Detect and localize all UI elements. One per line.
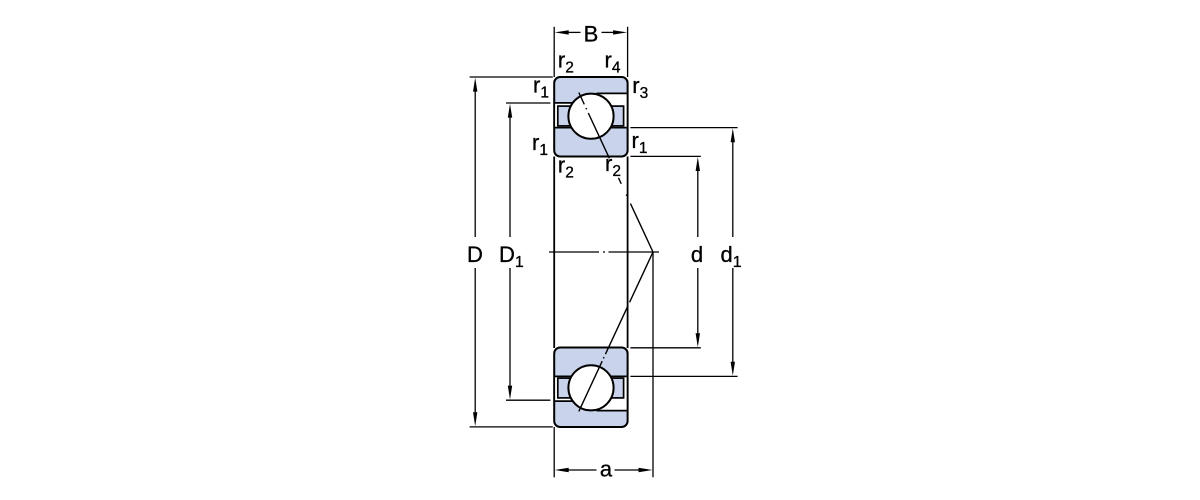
svg-text:D1: D1 <box>499 242 524 271</box>
svg-text:d1: d1 <box>721 242 742 271</box>
svg-text:D: D <box>467 242 483 267</box>
svg-text:r4: r4 <box>605 48 621 77</box>
svg-text:r3: r3 <box>632 73 648 102</box>
svg-text:d: d <box>691 242 703 267</box>
svg-text:a: a <box>600 457 613 482</box>
svg-text:B: B <box>584 21 599 46</box>
svg-text:r1: r1 <box>632 128 648 157</box>
svg-text:r1: r1 <box>532 130 548 159</box>
svg-text:r2: r2 <box>558 48 574 77</box>
